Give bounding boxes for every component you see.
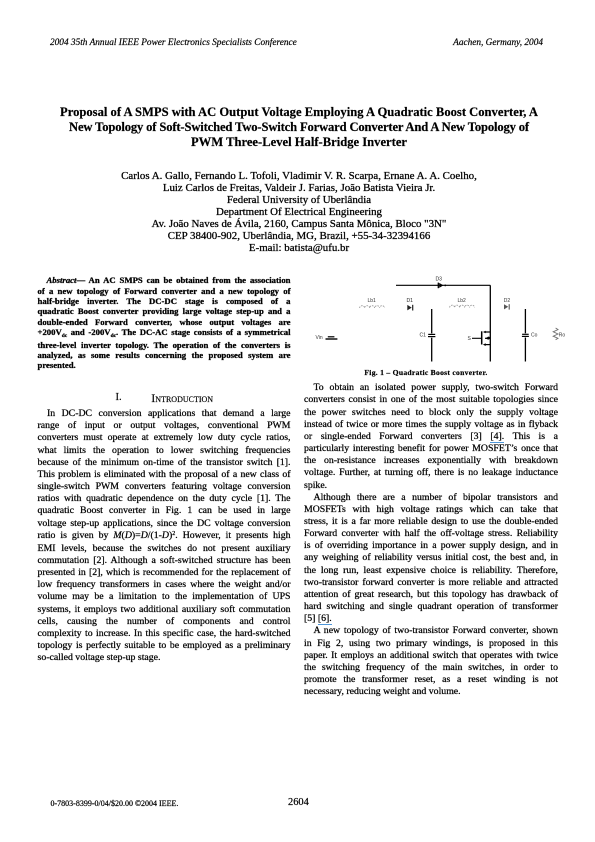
svg-text:Ro: Ro	[559, 332, 566, 338]
transistor S (mosfet)	[472, 331, 490, 362]
svg-text:D2: D2	[504, 298, 511, 304]
svg-text:Vin: Vin	[316, 335, 323, 341]
authors block	[40, 170, 558, 255]
inductor Lb2	[450, 305, 475, 307]
svg-text:D3: D3	[436, 277, 443, 283]
right column body	[304, 382, 558, 698]
wire: right drop from top rail	[489, 285, 491, 332]
inductor Lb1	[360, 306, 385, 308]
source Vin battery	[326, 336, 338, 340]
diode D3	[438, 283, 446, 289]
capacitor C1	[428, 309, 435, 362]
resistor Ro	[553, 328, 558, 340]
section heading I. INTRODUCTION	[116, 393, 122, 404]
figure caption	[300, 369, 552, 377]
title	[40, 105, 558, 149]
figure 1: quadratic boost converter schematic	[300, 262, 580, 372]
svg-text:Lb2: Lb2	[458, 298, 467, 304]
abstract (left column)	[38, 275, 291, 371]
svg-text:S: S	[468, 336, 472, 342]
running head left	[50, 39, 297, 48]
footer copyright	[51, 800, 179, 808]
wire: top rail	[396, 284, 490, 286]
svg-text:Co: Co	[531, 332, 538, 338]
diode D1	[407, 305, 412, 311]
capacitor Co	[522, 309, 529, 362]
svg-text:D1: D1	[407, 298, 414, 304]
svg-text:C1: C1	[420, 333, 427, 339]
footer page number	[288, 798, 309, 808]
running head right	[453, 39, 543, 48]
svg-text:Lb1: Lb1	[368, 298, 377, 304]
diode D2	[504, 304, 509, 309]
intro paragraph (left column)	[38, 408, 291, 664]
